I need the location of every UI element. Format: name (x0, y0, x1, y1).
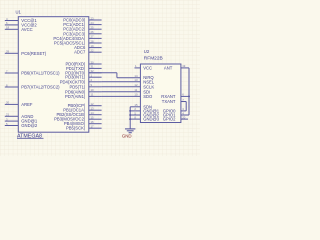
svg-text:PC6(RESET): PC6(RESET) (21, 51, 47, 56)
svg-text:21: 21 (6, 113, 10, 117)
svg-text:18: 18 (6, 26, 10, 30)
svg-text:12: 12 (91, 102, 95, 106)
svg-text:13: 13 (134, 78, 138, 82)
svg-text:GND: GND (122, 134, 132, 139)
svg-text:VCC: VCC (143, 65, 152, 70)
svg-text:SDO: SDO (143, 94, 153, 99)
svg-text:29: 29 (6, 50, 10, 54)
svg-text:PD7(AIN1): PD7(AIN1) (65, 94, 86, 99)
svg-text:30: 30 (91, 60, 95, 64)
svg-text:10: 10 (134, 93, 138, 97)
svg-text:11: 11 (91, 93, 94, 97)
svg-text:26: 26 (91, 30, 95, 34)
svg-text:10: 10 (91, 88, 95, 92)
svg-text:20: 20 (182, 115, 186, 119)
svg-text:GND@2: GND@2 (21, 123, 38, 128)
svg-text:GND@3: GND@3 (143, 117, 160, 122)
svg-text:AREF: AREF (21, 102, 33, 107)
svg-text:31: 31 (91, 65, 95, 69)
svg-text:23: 23 (91, 16, 95, 20)
svg-text:PB5(SCK): PB5(SCK) (66, 126, 86, 131)
svg-text:14: 14 (91, 111, 95, 115)
svg-text:27: 27 (91, 35, 95, 39)
svg-text:11: 11 (134, 88, 137, 92)
svg-text:16: 16 (91, 120, 95, 124)
svg-text:22: 22 (91, 49, 95, 53)
svg-text:TXANT: TXANT (162, 99, 176, 104)
svg-text:25: 25 (91, 26, 95, 30)
svg-text:19: 19 (91, 44, 95, 48)
svg-text:12: 12 (134, 83, 138, 87)
svg-text:PB6(XTAL1/TOSC1): PB6(XTAL1/TOSC1) (21, 71, 60, 76)
svg-text:19: 19 (182, 64, 186, 68)
svg-text:PB7(XTAL2/TOSC2): PB7(XTAL2/TOSC2) (21, 85, 60, 90)
svg-text:17: 17 (91, 125, 95, 129)
svg-text:U1: U1 (16, 10, 22, 15)
svg-text:24: 24 (91, 21, 95, 25)
svg-text:AVCC: AVCC (21, 27, 32, 32)
svg-text:20: 20 (6, 101, 10, 105)
svg-text:ADC7: ADC7 (74, 50, 86, 55)
svg-text:13: 13 (91, 107, 95, 111)
svg-text:15: 15 (91, 116, 95, 120)
svg-text:RFM22B: RFM22B (144, 55, 163, 61)
svg-text:U2: U2 (144, 49, 150, 54)
svg-text:ANT: ANT (164, 65, 173, 70)
svg-text:28: 28 (91, 39, 95, 43)
svg-text:GPIO2: GPIO2 (163, 117, 176, 122)
